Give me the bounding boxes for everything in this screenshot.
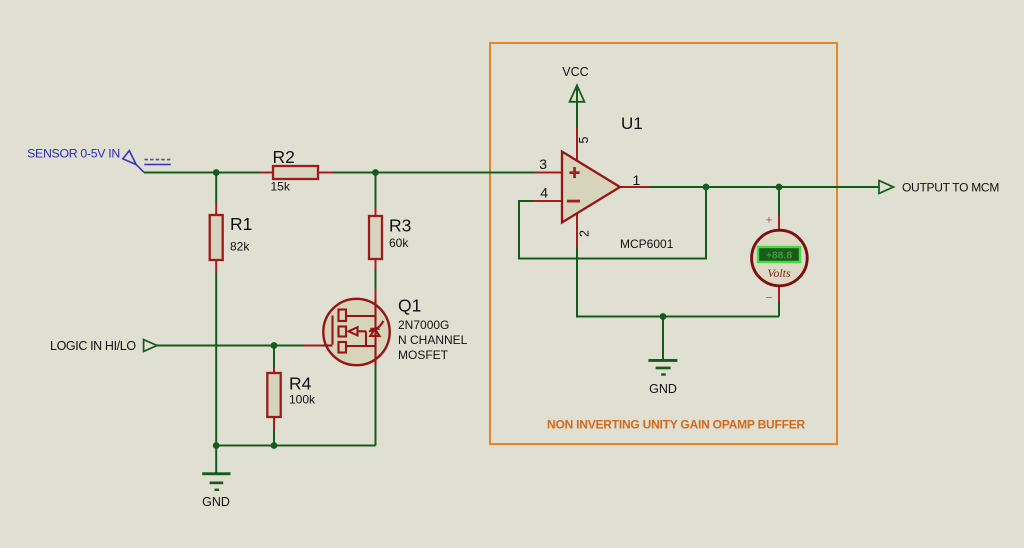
svg-text:R2: R2 <box>273 147 295 167</box>
svg-text:–: – <box>766 292 773 304</box>
svg-text:SENSOR 0-5V IN: SENSOR 0-5V IN <box>27 147 120 161</box>
svg-text:OUTPUT TO MCM: OUTPUT TO MCM <box>902 181 999 195</box>
svg-text:R4: R4 <box>289 374 312 394</box>
svg-text:100k: 100k <box>289 393 316 407</box>
svg-text:R3: R3 <box>389 216 411 236</box>
svg-text:82k: 82k <box>230 240 250 254</box>
svg-text:3: 3 <box>539 156 547 172</box>
svg-text:Volts: Volts <box>767 266 791 280</box>
svg-text:1: 1 <box>633 172 641 188</box>
svg-text:+: + <box>766 215 772 227</box>
svg-text:NON INVERTING UNITY GAIN OPAMP: NON INVERTING UNITY GAIN OPAMP BUFFER <box>547 418 805 432</box>
svg-text:VCC: VCC <box>562 65 588 79</box>
svg-text:15k: 15k <box>271 180 291 194</box>
svg-text:LOGIC IN HI/LO: LOGIC IN HI/LO <box>50 339 136 353</box>
svg-text:+88.8: +88.8 <box>766 250 793 262</box>
svg-text:5: 5 <box>577 136 591 143</box>
svg-text:60k: 60k <box>389 236 409 250</box>
svg-text:Q1: Q1 <box>398 296 421 316</box>
svg-text:N CHANNEL: N CHANNEL <box>398 333 468 347</box>
svg-text:MOSFET: MOSFET <box>398 348 449 362</box>
svg-text:2N7000G: 2N7000G <box>398 318 449 332</box>
svg-text:GND: GND <box>649 382 677 396</box>
svg-text:GND: GND <box>202 495 230 509</box>
svg-text:4: 4 <box>540 185 548 201</box>
svg-text:R1: R1 <box>230 214 252 234</box>
svg-text:U1: U1 <box>621 114 643 133</box>
svg-text:2: 2 <box>578 230 592 237</box>
svg-text:MCP6001: MCP6001 <box>620 237 674 251</box>
